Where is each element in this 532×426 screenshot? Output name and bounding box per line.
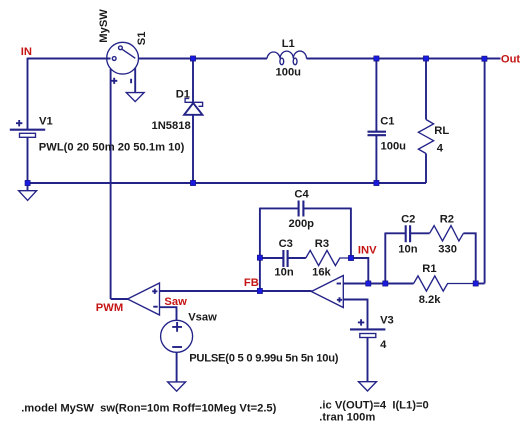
voltage source V1 <box>10 120 45 183</box>
wire bottom rail <box>28 182 426 184</box>
svg-text:R3: R3 <box>315 238 329 250</box>
ground under Vsaw <box>168 382 186 391</box>
svg-text:330: 330 <box>438 243 457 255</box>
wire PWM output <box>111 298 128 300</box>
svg-text:4: 4 <box>437 143 444 155</box>
wire Out rail down <box>484 59 486 284</box>
capacitor C2 <box>385 225 429 283</box>
svg-text:V1: V1 <box>39 116 53 128</box>
wire INV junction to error amp input <box>351 258 368 284</box>
svg-text:S1: S1 <box>136 32 148 46</box>
svg-text:10n: 10n <box>274 267 293 279</box>
capacitor C1 <box>368 59 387 184</box>
svg-text:8.2k: 8.2k <box>419 294 442 306</box>
svg-text:D1: D1 <box>176 89 190 101</box>
svg-text:.tran 100m: .tran 100m <box>319 412 375 424</box>
svg-text:R1: R1 <box>422 263 436 275</box>
resistor R2 <box>430 226 476 284</box>
voltage source Vsaw <box>161 320 193 352</box>
junction INV <box>348 255 353 260</box>
svg-text:INV: INV <box>358 245 377 257</box>
svg-text:FB: FB <box>244 277 259 289</box>
svg-text:200p: 200p <box>289 218 315 230</box>
svg-text:R2: R2 <box>440 213 454 225</box>
svg-text:V3: V3 <box>380 315 394 327</box>
svg-text:.ic V(OUT)=4 I(L1)=0: .ic V(OUT)=4 I(L1)=0 <box>319 399 428 411</box>
inductor L1 <box>267 51 307 65</box>
svg-text:C1: C1 <box>380 116 394 128</box>
svg-text:PWM: PWM <box>96 302 123 314</box>
wire L1 to Out flag <box>307 58 501 60</box>
junction V1 bottom <box>25 180 30 185</box>
wire switch to L1 <box>139 58 267 60</box>
junction RL top <box>423 56 428 61</box>
junction FB <box>257 288 262 293</box>
wire FB rail from comparator to error amp output <box>160 290 312 292</box>
junction C1 bottom <box>374 180 379 185</box>
wire IN corner down to V1 <box>27 58 29 129</box>
svg-text:MySW: MySW <box>98 9 110 43</box>
junction Out corner <box>482 56 487 61</box>
svg-text:100u: 100u <box>381 140 407 152</box>
wire error amp noninv to V3 <box>343 300 367 330</box>
diode D1 <box>184 59 203 184</box>
junction C3 left <box>257 255 262 260</box>
svg-text:16k: 16k <box>312 267 331 279</box>
svg-text:Saw: Saw <box>164 296 187 308</box>
svg-text:C3: C3 <box>279 238 293 250</box>
svg-text:PWL(0 20 50m 20 50.1m 10): PWL(0 20 50m 20 50.1m 10) <box>39 141 185 153</box>
svg-text:Vsaw: Vsaw <box>188 311 217 323</box>
svg-text:L1: L1 <box>282 38 295 50</box>
capacitor C4 <box>260 201 351 292</box>
svg-text:1N5818: 1N5818 <box>152 120 191 132</box>
junction D1 top <box>190 56 195 61</box>
svg-text:C2: C2 <box>401 213 415 225</box>
resistor RL <box>418 59 433 184</box>
ground under switch <box>126 93 144 102</box>
svg-text:C4: C4 <box>294 189 309 201</box>
wire error amp inverting rail <box>343 283 413 285</box>
junction D1 bottom <box>190 180 195 185</box>
svg-text:IN: IN <box>21 46 32 58</box>
op-amp U1 PWM comparator <box>128 283 160 315</box>
junction C1 top <box>374 56 379 61</box>
switch S1 <box>107 42 139 299</box>
voltage source V3 <box>350 319 385 382</box>
ground under V1 <box>27 183 29 191</box>
resistor R3 <box>306 250 351 265</box>
svg-text:Out: Out <box>501 53 521 65</box>
ground under V3 <box>359 382 377 391</box>
svg-text:100u: 100u <box>276 66 302 78</box>
svg-text:4: 4 <box>380 339 387 351</box>
wire comparator minus to Vsaw <box>160 307 177 320</box>
svg-text:.model MySW sw(Ron=10m Roff=1: .model MySW sw(Ron=10m Roff=10Meg Vt=2.5… <box>21 402 276 414</box>
wire top rail IN to switch <box>28 58 111 60</box>
junction C2 leg <box>383 281 388 286</box>
junction inv rail 1 <box>366 281 371 286</box>
svg-text:10n: 10n <box>398 243 417 255</box>
svg-text:RL: RL <box>434 125 449 137</box>
svg-text:PULSE(0 5 0 9.99u 5n 5n 10u): PULSE(0 5 0 9.99u 5n 5n 10u) <box>189 353 339 365</box>
junction R1 R2 right <box>473 281 478 286</box>
wire Vsaw to ground <box>176 352 178 382</box>
wire out leg to junction <box>476 283 485 285</box>
op-amp U2 error amplifier <box>311 276 343 308</box>
capacitor C3 <box>260 250 306 267</box>
resistor R1 <box>414 276 476 291</box>
